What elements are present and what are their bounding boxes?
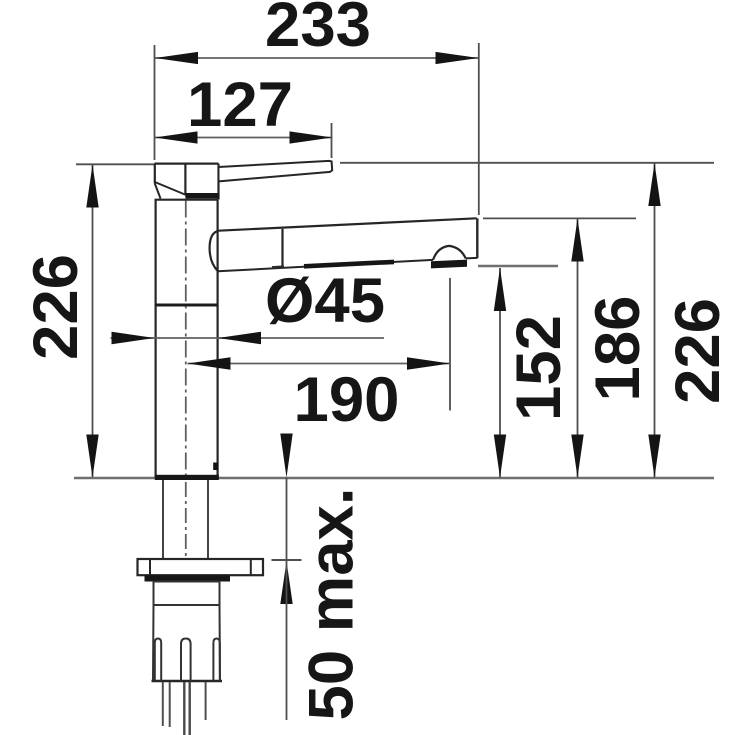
- handle-top extension line (right 226): [340, 162, 714, 164]
- right 226 down arrow: [648, 435, 660, 478]
- handle base bottom line / body top: [155, 199, 219, 201]
- aerator dome: [433, 246, 466, 260]
- extension line right of 233 (spout tip): [478, 43, 480, 215]
- handle block joint vertical: [184, 164, 186, 195]
- svg-text:233: 233: [265, 0, 371, 60]
- dimension 233 line: [155, 57, 479, 59]
- 186 down arrow: [571, 435, 583, 478]
- right 226 up arrow: [648, 163, 660, 206]
- handle pivot wedge lower diagonal: [155, 184, 161, 199]
- 50 max down arrow: [280, 434, 292, 478]
- mounting flange outline: [138, 559, 264, 575]
- body bottom thick band: [155, 475, 219, 480]
- spray head separation thick band: [304, 262, 394, 266]
- O45 left-pointing arrow: [218, 332, 261, 344]
- svg-text:190: 190: [294, 365, 400, 435]
- left 226 up arrow: [86, 165, 98, 208]
- spout right end cap: [476, 218, 478, 258]
- svg-text:152: 152: [504, 315, 574, 421]
- body column left edge: [155, 200, 157, 477]
- flange right inner vertical: [250, 559, 252, 575]
- dimension 233 right arrow: [436, 52, 479, 64]
- countertop surface line: [74, 477, 714, 480]
- 190 left arrow: [188, 357, 231, 369]
- handle block dark under band: [185, 193, 219, 199]
- body joint line: [155, 304, 218, 307]
- body center dash-dot line: [185, 201, 187, 478]
- left 226 down arrow: [86, 435, 98, 478]
- lever arm: [219, 161, 333, 182]
- flange left inner vertical: [149, 559, 151, 575]
- spout top edge: [219, 218, 477, 230]
- flange seal thick band: [145, 575, 231, 581]
- hose tail right: [205, 682, 207, 720]
- 186 dimension line: [577, 219, 579, 478]
- small dark segment left of joint: [272, 265, 284, 269]
- dimension 233 left arrow: [155, 52, 198, 64]
- right dimension 226 line: [654, 163, 656, 478]
- dimension 127 right arrow: [290, 131, 333, 143]
- 152 dimension line: [499, 268, 501, 478]
- 152 down arrow: [494, 435, 506, 478]
- shank center dash line: [185, 482, 187, 557]
- hose tail middle pair right: [188, 682, 190, 735]
- 50 max flange-level tick: [272, 559, 302, 561]
- mounting block bottom lip: [152, 680, 223, 683]
- 152 up arrow: [494, 268, 506, 311]
- spout joint vertical line: [281, 229, 283, 266]
- faucet handle block top: [155, 163, 219, 165]
- handle block right edge: [217, 164, 219, 200]
- spout left cap: [210, 231, 219, 272]
- dimension 127 left arrow: [155, 131, 198, 143]
- body column right edge: [217, 200, 219, 477]
- 190 right extension line: [449, 278, 451, 411]
- mounting block upper section: [154, 582, 220, 606]
- left 226 dimension line: [92, 165, 94, 478]
- svg-text:226: 226: [663, 298, 733, 404]
- left 226 top extension line: [76, 163, 155, 165]
- svg-text:127: 127: [187, 70, 293, 140]
- spout bottom right of aerator: [466, 257, 478, 260]
- 186 up arrow: [571, 219, 583, 262]
- 190 right arrow: [407, 357, 450, 369]
- svg-text:186: 186: [583, 296, 653, 402]
- right prong channel: [213, 639, 219, 682]
- middle prong channel: [181, 639, 191, 682]
- 190 dimension line: [188, 363, 451, 365]
- dimension 186 extension line: [483, 217, 636, 219]
- extension line left of 233/127: [154, 45, 156, 160]
- hose tail 2: [169, 682, 171, 727]
- shank left edge below counter: [162, 480, 164, 559]
- handle pivot wedge upper diagonal: [155, 182, 189, 196]
- body set-screw mark: [213, 463, 218, 471]
- 50 max dimension line: [286, 478, 288, 721]
- shank right edge below counter: [207, 480, 209, 559]
- dimension 127 line: [155, 137, 333, 139]
- extension line right of 127 (lever tip): [331, 123, 333, 158]
- svg-text:226: 226: [21, 254, 91, 360]
- O45 dimension line: [111, 337, 385, 339]
- svg-text:Ø45: Ø45: [265, 266, 385, 336]
- left prong channel: [155, 639, 161, 682]
- faucet handle block left edge: [154, 164, 156, 184]
- aerator dark base band: [431, 260, 467, 269]
- mounting block lower section left edge: [152, 605, 155, 681]
- mounting block lower section right edge: [219, 605, 222, 681]
- dimension 152 extension line: [478, 265, 558, 267]
- 50 max up arrow: [280, 561, 292, 604]
- spout bottom edge: [218, 260, 433, 271]
- hose tail 1: [162, 682, 164, 726]
- svg-text:50 max.: 50 max.: [297, 487, 367, 720]
- hose tail middle pair left: [183, 682, 185, 735]
- O45 right-pointing arrow: [112, 332, 155, 344]
